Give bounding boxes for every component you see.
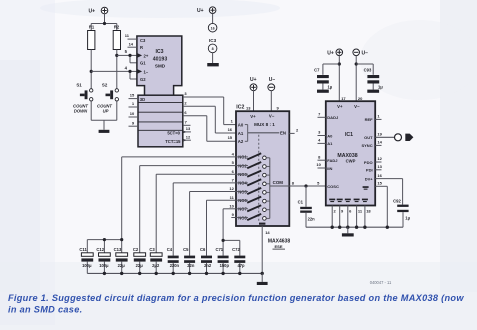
node rail x104 xyxy=(103,272,106,275)
node rail x223 xyxy=(221,272,224,275)
supply terminal U+ (IC3 power) xyxy=(197,7,216,14)
IC2 analog switch NO6 (pin 11) xyxy=(230,195,270,203)
IC2 analog switch NO4 (pin 7) xyxy=(232,178,270,186)
node rail x189 xyxy=(188,272,191,275)
svg-text:C13: C13 xyxy=(114,247,122,252)
svg-text:2n2: 2n2 xyxy=(204,263,212,268)
IC1 pin 16 DV+ to C92 xyxy=(375,173,402,205)
IC1 pin 13 PDI stub xyxy=(375,164,382,170)
IC1 pin 8 FADJ stub xyxy=(318,154,326,160)
svg-text:14: 14 xyxy=(265,230,270,235)
node gnd rail x356 xyxy=(355,226,358,229)
capacitor C2 22μ (electrolytic) xyxy=(133,247,146,274)
svg-text:040047 - 11: 040047 - 11 xyxy=(370,280,392,285)
capacitor C13 22μ (electrolytic) xyxy=(114,247,128,274)
node U+ / C7 xyxy=(338,62,341,65)
IC3 carry pin 12 stub xyxy=(183,134,191,141)
svg-text:10: 10 xyxy=(130,111,135,116)
svg-text:8: 8 xyxy=(212,47,214,51)
svg-text:C11: C11 xyxy=(79,247,87,252)
IC2 COM output to IC1 COSC xyxy=(270,180,326,186)
wire to IC3 pin 4 (count down clock) xyxy=(91,65,137,79)
svg-text:100μ: 100μ xyxy=(82,263,92,268)
svg-text:100μ: 100μ xyxy=(99,263,109,268)
wire to IC3 pin 5 (count up clock) xyxy=(117,49,137,63)
svg-text:C72: C72 xyxy=(232,247,240,252)
capacitor C1 22n xyxy=(298,186,316,227)
ground (switches) xyxy=(99,130,110,133)
node gnd rail x387 xyxy=(386,226,389,229)
svg-text:16: 16 xyxy=(228,127,233,132)
wire NO7 to C71/C72 xyxy=(223,209,240,256)
svg-text:MUX 8 : 1: MUX 8 : 1 xyxy=(254,122,275,127)
node rail x173 xyxy=(172,272,175,275)
svg-text:13: 13 xyxy=(377,164,382,169)
svg-text:19: 19 xyxy=(377,132,382,137)
wire U+ to IC1 pin 17 xyxy=(339,56,346,102)
node gnd rail x339 xyxy=(338,226,341,229)
capacitor C72 47p (film) xyxy=(232,247,245,274)
svg-text:R1: R1 xyxy=(89,24,95,29)
svg-text:IIN: IIN xyxy=(327,166,332,171)
node gnd rail x347 xyxy=(346,226,349,229)
wire U+ to R1/R2 xyxy=(91,14,117,31)
IC2 MUX label xyxy=(254,122,275,127)
svg-text:OUT: OUT xyxy=(364,135,373,140)
svg-text:G1: G1 xyxy=(140,61,146,66)
IC3 pin 7 stub xyxy=(183,119,191,125)
svg-text:A1: A1 xyxy=(238,131,244,136)
svg-text:16: 16 xyxy=(377,173,382,178)
node bus C13 xyxy=(120,238,123,241)
svg-text:22μ: 22μ xyxy=(136,263,144,268)
node rail x206 xyxy=(205,272,208,275)
svg-text:U−: U− xyxy=(362,51,369,57)
IC2 ground pin 14 xyxy=(259,223,270,274)
wire R1 to S1 xyxy=(90,50,92,89)
wire C11-C13 top bus xyxy=(87,240,121,253)
svg-text:C7: C7 xyxy=(314,67,320,72)
capacitor C12 100μ (electrolytic) xyxy=(96,247,110,274)
wire IC2 supply pins xyxy=(246,91,279,112)
IC1 internal ground glyph pin15 xyxy=(363,186,369,190)
IC1 pin 14 SYNC stub xyxy=(375,140,382,146)
svg-text:C3: C3 xyxy=(140,38,146,43)
svg-text:5CT=0: 5CT=0 xyxy=(167,130,180,135)
svg-text:U+: U+ xyxy=(88,8,95,14)
svg-text:13: 13 xyxy=(246,105,251,110)
svg-text:12: 12 xyxy=(377,156,382,161)
svg-text:14: 14 xyxy=(377,140,382,145)
svg-text:REF: REF xyxy=(365,117,374,122)
wire NO1 to C11/C12/C13 bus xyxy=(122,157,236,240)
svg-text:18: 18 xyxy=(366,209,371,214)
node rail x139 xyxy=(138,272,141,275)
svg-text:V+: V+ xyxy=(337,104,343,109)
svg-text:C1: C1 xyxy=(298,200,304,205)
svg-text:3D: 3D xyxy=(140,97,145,102)
node supply split xyxy=(103,22,106,25)
capacitor C6 2n2 (film) xyxy=(200,247,212,274)
capacitor C7 1u xyxy=(314,64,339,90)
svg-text:A0: A0 xyxy=(327,133,333,138)
IC1 pin 15 DGND xyxy=(375,181,387,228)
IC2 analog switch NO2 (pin 5) xyxy=(232,160,270,168)
svg-text:PDO: PDO xyxy=(364,160,373,165)
IC1 pin 4 A1 stub xyxy=(318,138,326,144)
IC1 pin 7 DADJ stub xyxy=(318,112,326,118)
ground (IC3 power) xyxy=(207,63,219,66)
svg-text:V+: V+ xyxy=(250,114,256,119)
svg-text:C5: C5 xyxy=(183,247,189,252)
svg-text:V−: V− xyxy=(354,104,360,109)
op-amp U2 IC2 MAX4638 body xyxy=(236,105,289,227)
svg-text:DADJ: DADJ xyxy=(327,115,338,120)
svg-text:ESE: ESE xyxy=(274,244,282,249)
svg-text:FADJ: FADJ xyxy=(327,158,337,163)
svg-text:2+: 2+ xyxy=(144,53,149,58)
IC1 ground pins 2 9 6 11 18 xyxy=(332,206,371,228)
svg-text:22n: 22n xyxy=(187,263,195,268)
wire R2 to S2 xyxy=(116,50,118,89)
svg-text:UP: UP xyxy=(103,108,109,113)
IC3 borrow pin 13 stub xyxy=(183,126,191,133)
svg-text:150p: 150p xyxy=(220,263,230,268)
supply terminal U- (IC2) xyxy=(268,77,275,91)
svg-text:SYNC: SYNC xyxy=(361,143,372,148)
capacitor C4 220n (film) xyxy=(167,247,180,274)
svg-text:V−: V− xyxy=(269,113,275,118)
wire IC3 pin3 to IC2 A0 xyxy=(183,91,236,125)
IC2 switch common bus xyxy=(269,158,271,219)
supply terminal U+ (R1/R2) xyxy=(88,7,107,14)
svg-text:40193: 40193 xyxy=(153,57,168,63)
svg-text:S2: S2 xyxy=(102,83,108,88)
svg-text:IC3: IC3 xyxy=(209,38,217,43)
drawing number xyxy=(370,280,392,285)
svg-text:22n: 22n xyxy=(308,217,316,222)
svg-text:R: R xyxy=(140,45,143,50)
capacitor C11 100μ (electrolytic) xyxy=(79,247,93,274)
IC2 analog switch NO3 (pin 6) xyxy=(232,169,270,177)
svg-text:A2: A2 xyxy=(238,139,244,144)
IC1 internal labels xyxy=(327,104,373,189)
svg-text:220n: 220n xyxy=(170,263,180,268)
svg-text:IC3: IC3 xyxy=(155,49,163,55)
node R2 / pin5 xyxy=(115,54,118,57)
IC1 pin 1 REF stub xyxy=(375,114,381,120)
svg-text:DV+: DV+ xyxy=(365,176,374,181)
IC2 analog switch NO5 (pin 12) xyxy=(229,186,269,194)
svg-text:COM: COM xyxy=(273,180,284,185)
node pin4/G2 split xyxy=(128,70,131,73)
wire NO line to C2 xyxy=(140,166,236,253)
wire IC3 pin6 to IC2 A2 xyxy=(183,110,236,142)
ground (capacitor rail) xyxy=(257,273,268,285)
IC1 pin 19 OUT to output terminal xyxy=(375,132,394,138)
IC2 control dashed line xyxy=(258,135,260,222)
svg-text:12: 12 xyxy=(186,134,191,139)
node COM / C1 xyxy=(304,184,307,187)
svg-text:CWP: CWP xyxy=(346,159,356,164)
IC3 data input stubs 15/1/10/9 xyxy=(129,93,139,127)
output terminal xyxy=(395,134,414,141)
IC2 top labels xyxy=(250,113,275,118)
svg-text:IC1: IC1 xyxy=(345,132,353,138)
switch S1 COUNT DOWN xyxy=(73,83,93,114)
wire capacitor ground rail xyxy=(87,272,262,274)
node pin5/G1 split xyxy=(128,54,131,57)
svg-text:10: 10 xyxy=(316,162,321,167)
node rail x239 xyxy=(238,272,241,275)
IC1 pin 12 PDO stub xyxy=(375,156,382,162)
svg-text:C71: C71 xyxy=(215,247,223,252)
svg-text:C4: C4 xyxy=(167,247,173,252)
node rail x121 xyxy=(120,272,123,275)
svg-text:SMD: SMD xyxy=(155,63,166,68)
svg-text:14: 14 xyxy=(129,41,134,46)
svg-text:in an SMD case.: in an SMD case. xyxy=(8,304,82,314)
wire NO line to C3 xyxy=(156,174,236,253)
node gnd rail x332 xyxy=(331,226,334,229)
svg-text:C2: C2 xyxy=(133,247,139,252)
svg-text:DOWN: DOWN xyxy=(74,108,88,113)
capacitor C92 1u xyxy=(393,198,410,220)
svg-text:C12: C12 xyxy=(96,247,104,252)
wire NO8 stub xyxy=(231,217,236,219)
IC1 pin 3 A0 stub xyxy=(318,130,326,136)
svg-text:U+: U+ xyxy=(197,8,204,14)
op-amp U3 IC1 MAX038 body xyxy=(326,101,375,205)
svg-text:U−: U− xyxy=(269,77,276,83)
supply terminal U+ (IC1) xyxy=(327,49,342,57)
svg-text:13: 13 xyxy=(186,126,191,131)
ground (C93) xyxy=(367,90,379,93)
ground (IC1 rail) xyxy=(342,227,354,236)
svg-text:Figure 1. Suggested circuit di: Figure 1. Suggested circuit diagram for … xyxy=(8,293,464,303)
IC2 analog switch NO8 (pin 9) xyxy=(232,212,270,220)
wire NO line to C5 xyxy=(190,192,236,256)
node gnd rail x364 xyxy=(363,226,366,229)
svg-text:10: 10 xyxy=(229,203,234,208)
svg-text:TCT=15: TCT=15 xyxy=(165,139,181,144)
svg-text:C93: C93 xyxy=(364,67,372,72)
op-amp U1 IC3 40193 counter body xyxy=(137,36,183,147)
IC2 EN input xyxy=(248,128,299,136)
svg-text:A0: A0 xyxy=(238,122,244,127)
svg-text:C3: C3 xyxy=(149,247,155,252)
node R1 / pin4 xyxy=(90,70,93,73)
svg-text:G2: G2 xyxy=(140,77,146,82)
svg-text:22μ: 22μ xyxy=(118,263,126,268)
IC2 address inputs A0 A1 A2 xyxy=(238,122,248,144)
capacitor C5 22n (film) xyxy=(183,247,195,274)
svg-text:U+: U+ xyxy=(250,77,257,83)
svg-text:17: 17 xyxy=(341,96,346,101)
svg-text:2μ2: 2μ2 xyxy=(152,263,160,268)
caption text xyxy=(8,293,464,315)
supply terminal U+ (IC2) xyxy=(250,77,257,91)
node C71/C72 split xyxy=(222,239,225,242)
capacitor C3 2μ2 (electrolytic) xyxy=(149,247,162,274)
ground (C7) xyxy=(317,90,329,93)
node rail x262 xyxy=(261,272,264,275)
capacitor C93 1u xyxy=(356,64,383,90)
svg-text:16: 16 xyxy=(211,26,215,30)
svg-text:12: 12 xyxy=(229,186,234,191)
supply terminal U- (IC1) xyxy=(353,49,368,57)
capacitor C71 150p (film) xyxy=(215,247,229,274)
IC2 analog switch NO1 (pin 4) xyxy=(232,152,270,160)
svg-text:U+: U+ xyxy=(327,51,334,57)
wire NO line to C4 xyxy=(173,183,236,256)
IC3 labels xyxy=(138,38,182,144)
svg-text:PDI: PDI xyxy=(366,168,373,173)
switch S2 COUNT UP xyxy=(97,83,118,114)
svg-text:20: 20 xyxy=(358,96,363,101)
IC3 pin 14 stub xyxy=(128,41,137,47)
svg-text:COSC: COSC xyxy=(327,184,339,189)
node rail x156 xyxy=(155,272,158,275)
svg-text:IC2: IC2 xyxy=(236,105,244,111)
node U- / C93 xyxy=(355,62,358,65)
node bus C12 xyxy=(103,238,106,241)
wire NO line to C6 xyxy=(207,200,237,255)
IC1 internal ground glyphs bottom xyxy=(329,199,368,203)
svg-text:1−: 1− xyxy=(144,69,149,74)
svg-text:47p: 47p xyxy=(237,263,245,268)
wire and IC3 power pins 16/8 xyxy=(208,14,217,64)
svg-text:A1: A1 xyxy=(327,141,333,146)
wire IC1 ground rail xyxy=(306,212,403,227)
resistor R2 xyxy=(113,24,120,49)
svg-text:15: 15 xyxy=(130,93,135,98)
wire S1/S2 to ground xyxy=(91,101,117,130)
IC2 part number xyxy=(268,238,290,249)
svg-text:S1: S1 xyxy=(76,83,82,88)
svg-text:EN: EN xyxy=(280,131,286,136)
svg-text:R2: R2 xyxy=(114,24,120,29)
svg-text:15: 15 xyxy=(228,135,233,140)
IC3 pin 11 stub xyxy=(125,33,137,39)
resistor R1 xyxy=(88,24,95,49)
svg-text:1μ: 1μ xyxy=(405,216,410,221)
svg-text:C92: C92 xyxy=(393,198,401,203)
IC2 analog switch NO7 (pin 10) xyxy=(229,203,269,211)
svg-text:1μ: 1μ xyxy=(328,84,333,89)
svg-text:15: 15 xyxy=(377,181,382,186)
wire IC3 pin2 to IC2 A1 xyxy=(183,100,236,133)
IC1 pin 10 IIN stub xyxy=(316,162,325,168)
wire U- to IC1 pin 20 xyxy=(356,56,363,102)
svg-text:C6: C6 xyxy=(200,247,206,252)
svg-text:1μ: 1μ xyxy=(378,84,383,89)
